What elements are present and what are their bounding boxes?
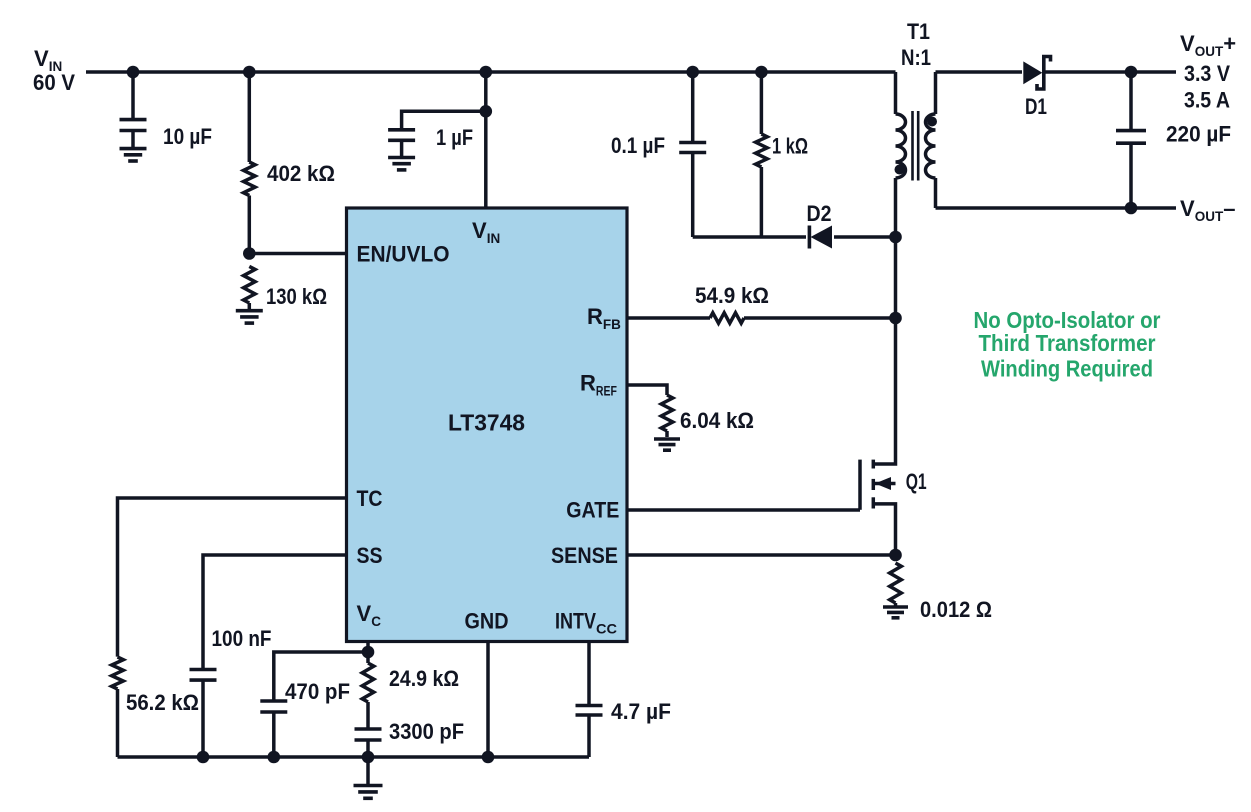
resistor R4 6.04k on RREF xyxy=(627,385,673,437)
wire secondary top to D1 xyxy=(936,70,1023,74)
svg-text:0.1 µF: 0.1 µF xyxy=(611,133,665,158)
junction output cap bottom xyxy=(1125,202,1138,215)
wire GND pin xyxy=(486,642,490,758)
label 100nF xyxy=(212,626,272,651)
polarity dot primary xyxy=(895,165,905,175)
ground for 10uF xyxy=(120,149,147,161)
junction rail 100nF xyxy=(197,751,210,764)
svg-text:GND: GND xyxy=(465,609,509,634)
op-amp U1 LT3748 IC body xyxy=(347,208,628,642)
label 1uF xyxy=(436,125,473,150)
pin label VC xyxy=(357,601,382,629)
resistor R7 56.2k xyxy=(112,657,124,757)
svg-text:GATE: GATE xyxy=(566,498,619,523)
transistor Q1 mosfet xyxy=(860,318,896,555)
capacitor C2 1uF xyxy=(388,111,486,157)
pin label RREF xyxy=(580,371,617,399)
pin label RFB xyxy=(587,304,621,332)
svg-text:D1: D1 xyxy=(1025,94,1047,119)
transformer T1 labels xyxy=(901,19,931,70)
wire top input rail xyxy=(86,70,896,74)
resistor R3 54.9k with RFB wire xyxy=(627,313,896,323)
pin label EN/UVLO xyxy=(357,242,450,267)
junction top rail at 1k xyxy=(755,66,768,79)
svg-text:N:1: N:1 xyxy=(901,45,931,70)
svg-text:SS: SS xyxy=(357,543,383,568)
polarity dot secondary xyxy=(927,117,937,127)
label 1k xyxy=(772,134,808,159)
svg-text:4.7 µF: 4.7 µF xyxy=(611,699,671,724)
svg-text:10 µF: 10 µF xyxy=(163,124,212,149)
svg-text:0.012 Ω: 0.012 Ω xyxy=(920,597,992,622)
pin label SENSE xyxy=(551,543,618,568)
label 0.1uF xyxy=(611,133,665,158)
node VIN input label xyxy=(33,46,75,95)
label 10uF xyxy=(163,124,212,149)
junction top rail at VIN pin xyxy=(480,66,493,79)
label 6.04k xyxy=(680,408,754,433)
ground main rail xyxy=(354,757,383,798)
wire VC pin xyxy=(366,642,370,664)
label 3300pF xyxy=(389,719,464,744)
svg-text:1 kΩ: 1 kΩ xyxy=(772,134,808,159)
svg-text:100 nF: 100 nF xyxy=(212,626,272,651)
ground for 130k xyxy=(236,311,263,323)
pin label SS xyxy=(357,543,383,568)
svg-text:402 kΩ: 402 kΩ xyxy=(267,161,335,186)
capacitor C5 100nF xyxy=(190,670,217,758)
ground for 1uF xyxy=(388,158,415,170)
wire D1 cathode to output xyxy=(1046,70,1177,74)
svg-text:60 V: 60 V xyxy=(33,70,75,95)
svg-text:SENSE: SENSE xyxy=(551,543,618,568)
junction top rail at 402k xyxy=(243,66,256,79)
label LT3748 xyxy=(448,410,525,436)
wire INTVCC pin xyxy=(587,642,591,706)
svg-text:No Opto-Isolator or: No Opto-Isolator or xyxy=(974,307,1161,333)
svg-text:470 pF: 470 pF xyxy=(285,679,350,704)
svg-text:54.9 kΩ: 54.9 kΩ xyxy=(695,283,769,308)
junction D2 to drain line xyxy=(889,231,902,244)
junction sense resistor xyxy=(889,549,902,562)
svg-text:Third Transformer: Third Transformer xyxy=(979,330,1156,356)
junction EN/UVLO divider xyxy=(243,247,256,260)
label 402k xyxy=(267,161,335,186)
transformer T1 core xyxy=(913,111,919,181)
transformer T1 secondary winding xyxy=(926,72,936,208)
svg-text:1 µF: 1 µF xyxy=(436,125,473,150)
node VOUT- label xyxy=(1180,196,1235,224)
capacitor C3 0.1uF snubber xyxy=(679,72,706,237)
wire secondary bottom xyxy=(936,206,1177,210)
svg-text:220 µF: 220 µF xyxy=(1166,122,1231,147)
svg-text:Winding Required: Winding Required xyxy=(981,355,1153,381)
capacitor C6 470pF xyxy=(260,701,287,757)
svg-text:3300 pF: 3300 pF xyxy=(389,719,464,744)
pin label VIN xyxy=(472,218,500,246)
svg-text:Q1: Q1 xyxy=(906,469,927,494)
junction top rail at 10uF xyxy=(127,66,140,79)
label 220uF xyxy=(1166,122,1231,147)
wire snubber bottom xyxy=(693,235,896,239)
ground for 6.04k xyxy=(654,439,680,450)
junction rail 3300pF xyxy=(362,751,375,764)
junction RFB to drain line xyxy=(889,312,902,325)
node VOUT+ labels xyxy=(1180,31,1236,113)
label 130k xyxy=(266,284,327,309)
junction rail 470pF xyxy=(268,751,281,764)
pin label TC xyxy=(357,486,383,511)
junction top rail at 0.1uF xyxy=(686,66,699,79)
wire bottom ground rail xyxy=(118,755,590,759)
svg-text:6.04 kΩ: 6.04 kΩ xyxy=(680,408,754,433)
capacitor C7 3300pF xyxy=(355,729,382,757)
svg-text:LT3748: LT3748 xyxy=(448,410,525,436)
svg-text:3.3 V: 3.3 V xyxy=(1184,61,1230,86)
wire GATE xyxy=(627,508,860,512)
pin label INTVCC xyxy=(555,609,617,637)
annotation green note xyxy=(974,307,1161,381)
resistor R1 402k xyxy=(244,72,256,254)
label 4.7uF xyxy=(611,699,671,724)
resistor R2 130k xyxy=(244,266,256,309)
svg-text:130 kΩ: 130 kΩ xyxy=(266,284,327,309)
wire EN/UVLO xyxy=(249,252,346,256)
pin label GND xyxy=(465,609,509,634)
pin label GATE xyxy=(566,498,619,523)
capacitor C4 220uF xyxy=(1116,72,1146,208)
ground for 0.012 ohm xyxy=(883,607,908,618)
wire SENSE xyxy=(627,553,896,557)
capacitor C1 10uF xyxy=(120,72,147,148)
svg-text:24.9 kΩ: 24.9 kΩ xyxy=(389,666,459,691)
svg-text:3.5 A: 3.5 A xyxy=(1184,88,1230,113)
wire TC xyxy=(118,498,347,657)
resistor R6 0.012 ohm xyxy=(890,563,902,606)
diode D2 xyxy=(809,226,832,249)
junction output cap top xyxy=(1125,66,1138,79)
junction VC node xyxy=(362,646,375,659)
wire VC to 470pF xyxy=(274,652,368,701)
label 470pF xyxy=(285,679,350,704)
svg-text:EN/UVLO: EN/UVLO xyxy=(357,242,450,267)
junction rail GND pin xyxy=(482,751,495,764)
svg-text:D2: D2 xyxy=(807,201,832,226)
junction 1uF tap xyxy=(480,105,493,118)
svg-text:T1: T1 xyxy=(907,19,930,44)
label Q1 xyxy=(906,469,927,494)
svg-text:TC: TC xyxy=(357,486,383,511)
label 54.9k xyxy=(695,283,769,308)
resistor R8 24.9k xyxy=(362,663,374,729)
label D2 xyxy=(807,201,832,226)
wire VIN pin vertical xyxy=(484,72,488,208)
resistor R5 1k snubber xyxy=(756,72,768,237)
transformer T1 primary winding xyxy=(896,72,906,318)
label 56.2k xyxy=(126,690,199,715)
svg-text:56.2 kΩ: 56.2 kΩ xyxy=(126,690,199,715)
label 0.012 ohm xyxy=(920,597,992,622)
capacitor C8 4.7uF xyxy=(576,706,603,758)
label D1 xyxy=(1025,94,1047,119)
label 24.9k xyxy=(389,666,459,691)
wire SS xyxy=(203,555,347,670)
diode D1 schottky xyxy=(1023,57,1050,90)
